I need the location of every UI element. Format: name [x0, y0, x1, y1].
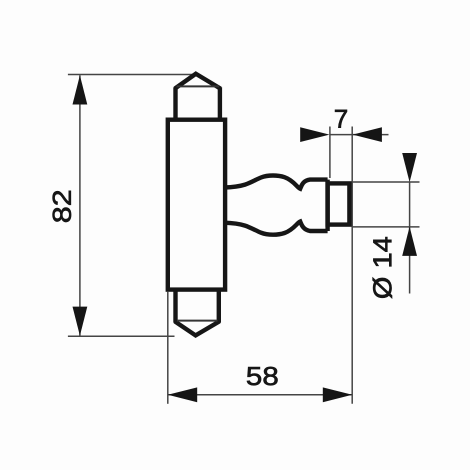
- stem neck bottom profile: [224, 222, 327, 235]
- bottom cap cylinder: [176, 290, 219, 323]
- dimension line 82: [79, 75, 81, 336]
- collar right edge: [325, 180, 329, 231]
- extension line right (58 and 7): [351, 127, 353, 404]
- knob outline, thick strokes: [168, 74, 350, 336]
- dimension text 82: [53, 191, 71, 222]
- top cap cylinder: [176, 87, 220, 120]
- dimension text dia 14: [373, 237, 392, 298]
- extension line top (dia 14): [352, 181, 419, 183]
- arrow pointing left (7 right outside): [353, 127, 382, 142]
- arrow right (58): [323, 387, 352, 402]
- dimension text 7: [335, 110, 347, 128]
- arrow left (58): [168, 387, 197, 402]
- top cone: [175, 74, 221, 89]
- dimension line dia 14 with bottom tail: [409, 182, 411, 294]
- bottom cone base line: [177, 320, 218, 322]
- arrow up (82 top): [73, 75, 88, 104]
- arrow pointing right (7 left outside): [300, 127, 329, 142]
- bottom cone: [175, 321, 220, 335]
- dimension line 58: [168, 394, 352, 396]
- arrow pointing up (dia14 bottom outside): [402, 227, 417, 256]
- top cone base line: [177, 85, 220, 87]
- extension line left (58): [167, 292, 169, 404]
- end spindle: [328, 183, 350, 224]
- thin junction lines on caps: [177, 86, 220, 320]
- knob main body: [168, 120, 225, 290]
- extension line top (82): [68, 74, 196, 76]
- dimension line 7 with right tail: [330, 134, 389, 136]
- extension line bottom (dia 14): [352, 226, 419, 228]
- arrow pointing down (dia14 top outside): [402, 153, 417, 182]
- extension line bottom (82): [68, 335, 175, 337]
- stem neck top profile: [224, 176, 327, 189]
- dimension text 58: [247, 367, 278, 385]
- extension line left (7): [329, 127, 331, 179]
- arrow down (82 bottom): [73, 307, 88, 336]
